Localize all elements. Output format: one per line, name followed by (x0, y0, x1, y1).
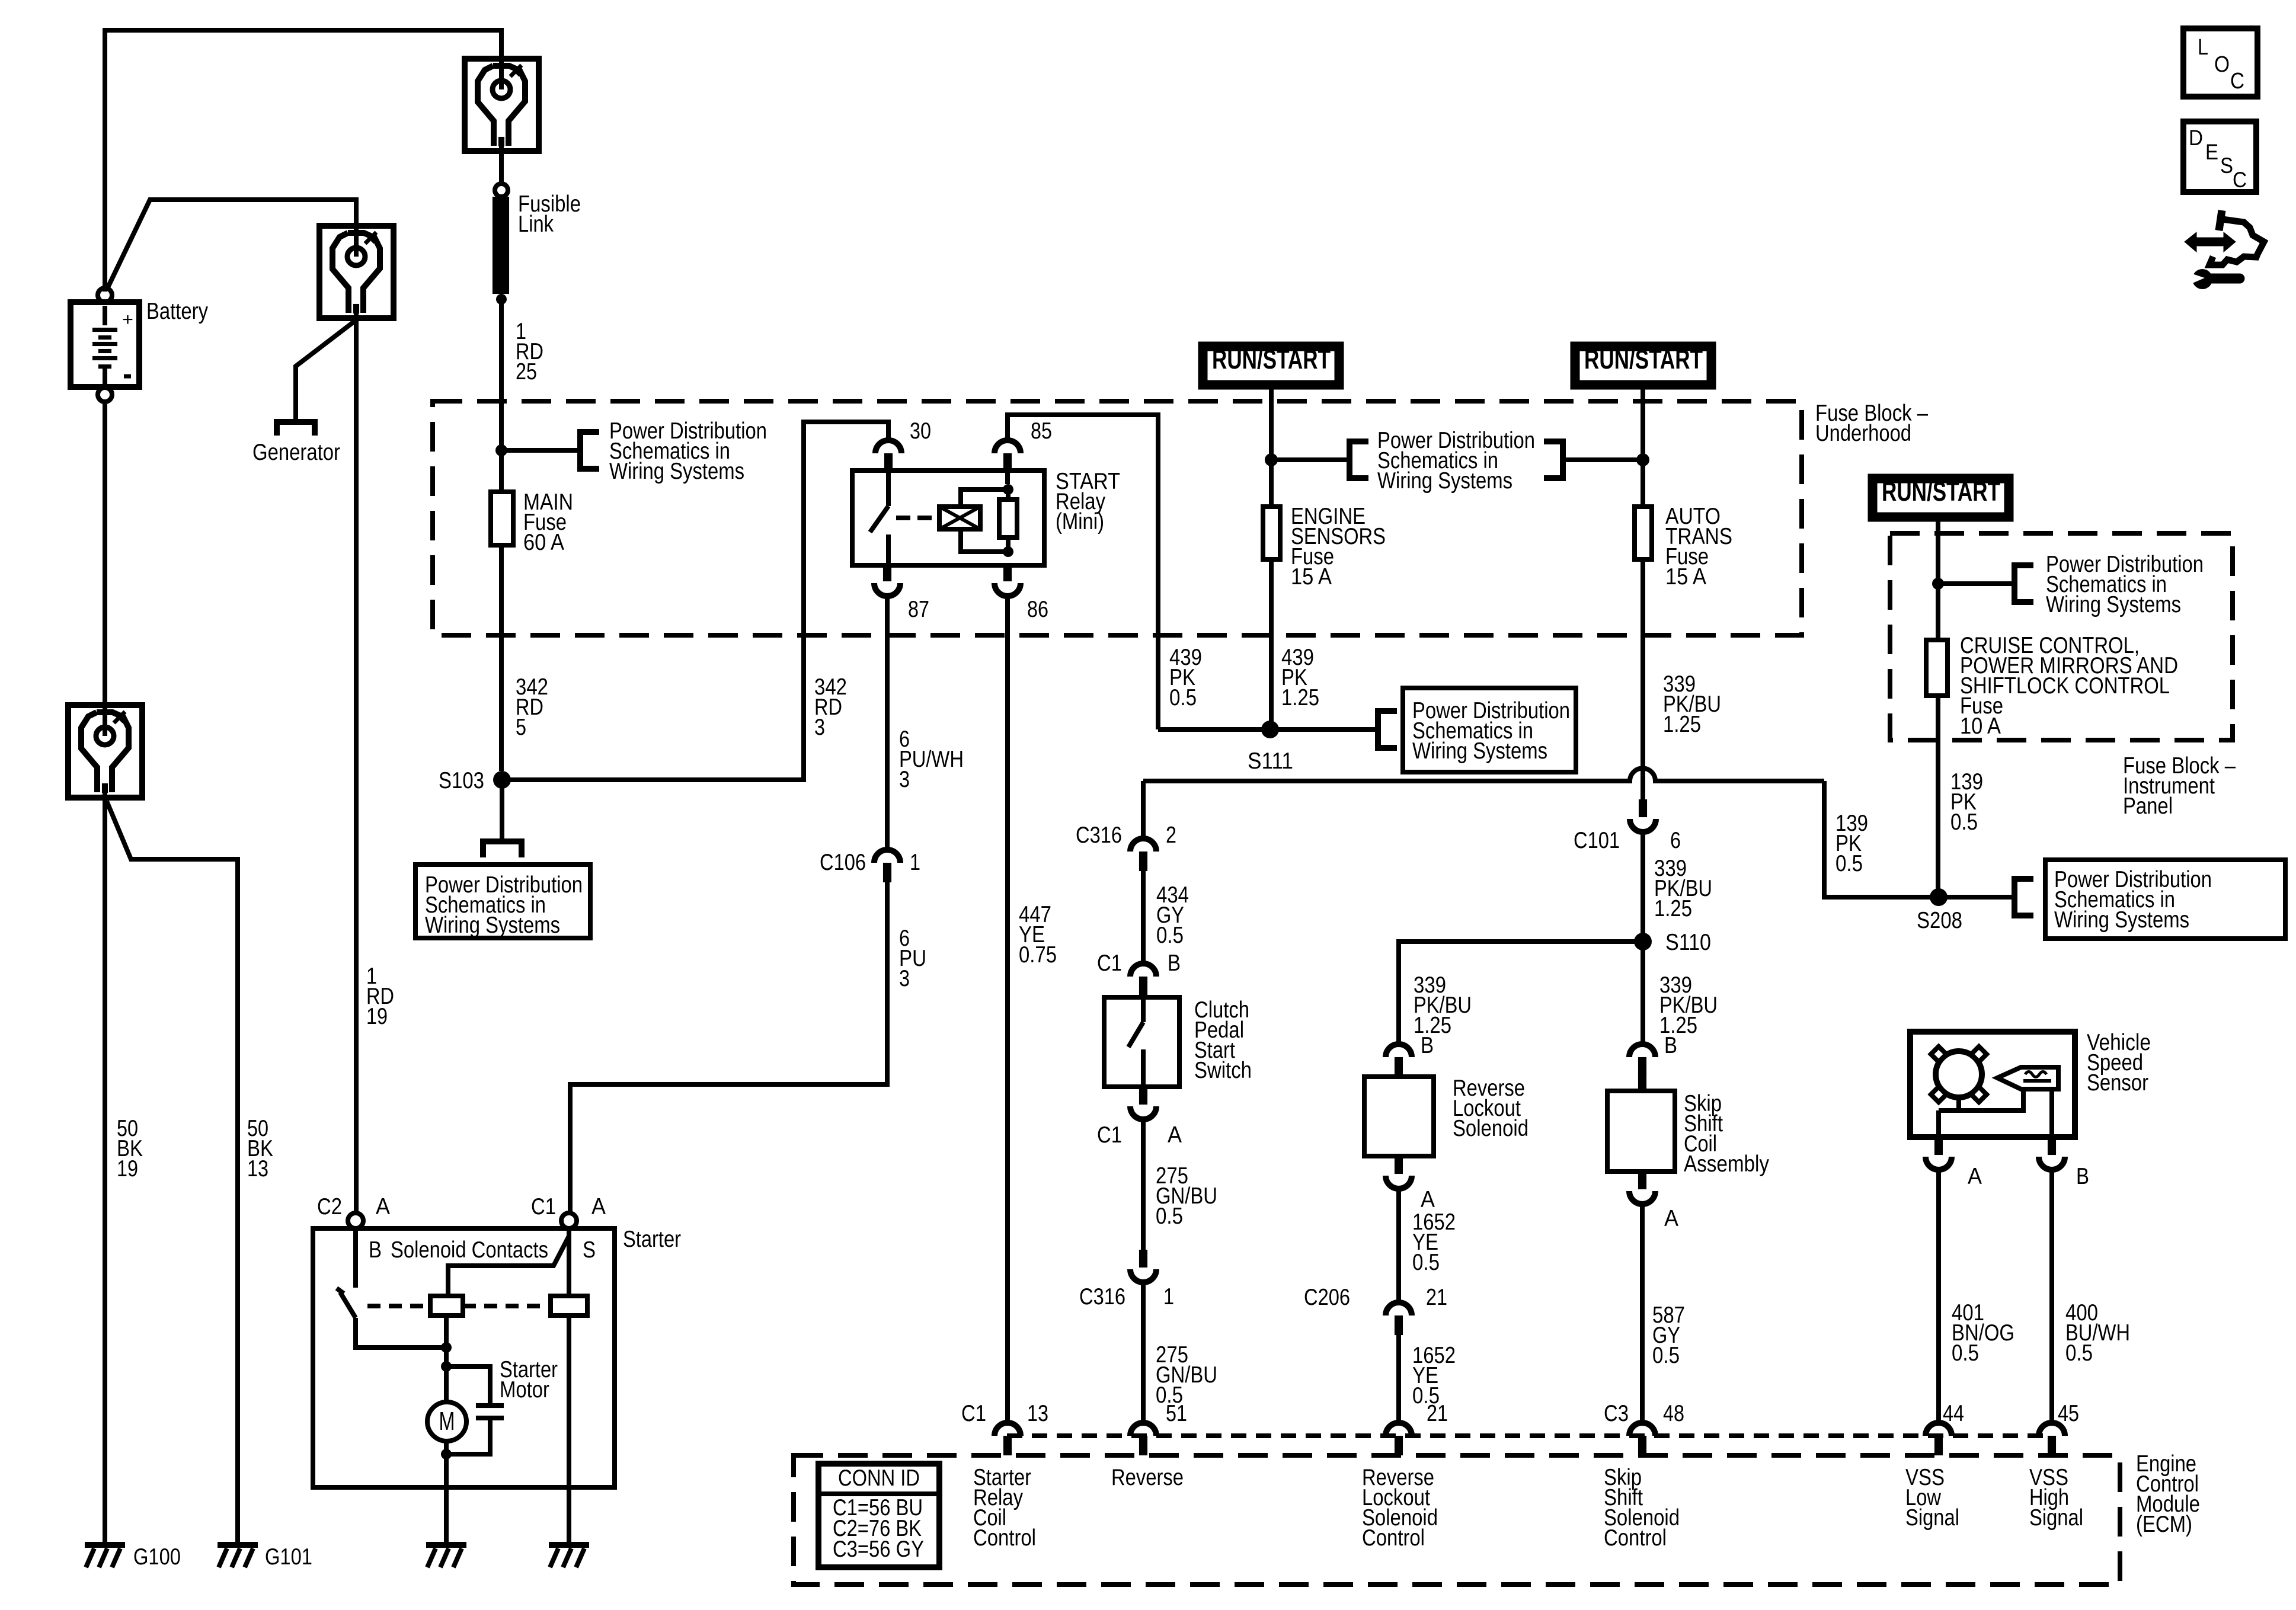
clutch pedal start switch box (1104, 997, 1179, 1087)
svg-text:L: L (2198, 35, 2208, 60)
svg-text:15 A: 15 A (1291, 564, 1332, 590)
svg-text:G101: G101 (265, 1544, 312, 1570)
svg-text:Wiring Systems: Wiring Systems (1412, 738, 1547, 764)
svg-text:19: 19 (117, 1156, 138, 1182)
svg-text:C3=56 GY: C3=56 GY (833, 1537, 924, 1562)
node relay coil top junction (1003, 484, 1013, 495)
vss reluctor ring (1936, 1051, 1982, 1097)
power distribution box (S111) (1403, 688, 1576, 772)
svg-text:C: C (2230, 69, 2244, 94)
wire 401 BN/OG to ECM pin 44 (1936, 1170, 1941, 1423)
wire 339 PK/BU 1.25 fuse down to C101 (1641, 559, 1645, 799)
svg-text:Assembly: Assembly (1684, 1151, 1769, 1177)
ground G100 (85, 1542, 125, 1548)
svg-text:C1: C1 (961, 1401, 986, 1426)
connector C106 pin 1 (874, 850, 900, 863)
svg-text:0.75: 0.75 (1019, 942, 1057, 968)
svg-text:G100: G100 (133, 1544, 181, 1570)
wire 434 GY to clutch switch (1141, 871, 1146, 964)
wire relay pin 87 to C106 (885, 596, 890, 850)
svg-text:30: 30 (910, 418, 931, 444)
svg-text:60 A: 60 A (523, 530, 564, 555)
svg-text:C: C (2233, 168, 2247, 192)
wire RUN/START 2 down to fuse (1641, 389, 1645, 460)
wire 275 GN/BU to C316 pin 1 (1141, 1119, 1146, 1250)
svg-text:0.5: 0.5 (1950, 809, 1978, 835)
wire 50 BK 13 to G101 (107, 801, 238, 1542)
svg-text:RUN/START: RUN/START (1212, 344, 1331, 375)
fuse block underhood dashed box (433, 401, 1802, 635)
power distribution box (S103) (415, 865, 590, 938)
node junction engine sensors (1265, 453, 1278, 466)
svg-text:Signal: Signal (1905, 1505, 1959, 1531)
start relay actuation dashed link (896, 516, 939, 520)
ground starter solenoid (549, 1542, 589, 1548)
wire battery positive diagonal to generator output bus (107, 200, 356, 289)
starter capacitor branch (446, 1366, 490, 1403)
node S111 (1261, 721, 1279, 738)
connector clutch switch C1 pin A (1139, 1087, 1147, 1105)
svg-text:C2: C2 (317, 1194, 342, 1219)
svg-text:85: 85 (1031, 418, 1052, 444)
svg-text:Panel: Panel (2123, 793, 2173, 819)
ECM pin 13 connector (994, 1423, 1021, 1436)
svg-text:86: 86 (1027, 597, 1048, 622)
svg-text:25: 25 (516, 359, 537, 385)
wire starter motor to ground (444, 1454, 449, 1542)
wire branch to bracket (cruise) (1938, 581, 2014, 586)
connector C206 pin 21 (1386, 1302, 1412, 1315)
svg-text:Motor: Motor (500, 1377, 549, 1403)
svg-text:51: 51 (1166, 1401, 1187, 1426)
RUN/START feed 1 (engine sensors fuse) (1198, 342, 1344, 389)
svg-text:1.25: 1.25 (1654, 896, 1692, 921)
svg-text:1: 1 (910, 850, 920, 875)
ECM pin 44 connector (1926, 1423, 1952, 1436)
power distribution box (S208) (2045, 860, 2285, 939)
wire 434 GY down to C316 pin 2 (1141, 781, 1146, 838)
reverse lockout solenoid box (1364, 1077, 1434, 1156)
svg-text:B: B (1168, 950, 1181, 976)
svg-text:C316: C316 (1079, 1284, 1125, 1310)
ECM pin 48 connector (1629, 1423, 1655, 1436)
start relay coil wiring loop (961, 489, 1008, 507)
node junction auto trans (1636, 453, 1649, 466)
svg-text:C1: C1 (531, 1194, 556, 1219)
svg-text:0.5: 0.5 (1952, 1340, 1979, 1366)
ECM pin 51 connector (1130, 1423, 1156, 1436)
wire 50 BK 19 to G100 (103, 798, 107, 1542)
svg-text:0.5: 0.5 (1169, 685, 1197, 710)
start relay resistor (999, 500, 1017, 537)
svg-text:0.5: 0.5 (1652, 1343, 1680, 1368)
svg-text:Wiring Systems: Wiring Systems (2046, 592, 2181, 617)
wire branch to power distribution bracket (501, 448, 580, 453)
node S103 (493, 771, 511, 789)
svg-text:E: E (2205, 140, 2218, 164)
svg-text:3: 3 (899, 767, 910, 792)
svg-text:Signal: Signal (2029, 1505, 2083, 1531)
svg-text:S111: S111 (1248, 748, 1293, 774)
vss pickup arrow (1997, 1067, 2058, 1089)
RUN/START feed 2 (auto trans fuse) (1571, 342, 1716, 389)
wire branch to bracket (engine sensors) (1271, 457, 1350, 462)
svg-text:S: S (583, 1237, 596, 1263)
start relay coil (939, 507, 980, 529)
starter solenoid switch (353, 1228, 358, 1288)
wire relay pin 86 to ECM pin 13 (447 YE) (1005, 596, 1010, 1423)
svg-text:B: B (1421, 1033, 1434, 1058)
wire S111 to power distribution box bracket (1270, 727, 1378, 732)
node junction cruise fuse (1932, 578, 1944, 590)
vss internal wiring (1959, 1089, 2023, 1110)
svg-text:D: D (2189, 126, 2203, 150)
node starter junction switch (441, 1342, 452, 1353)
svg-text:RUN/START: RUN/START (1882, 476, 2000, 507)
svg-text:19: 19 (366, 1004, 388, 1029)
fuse CRUISE CONTROL POWER MIRRORS AND SHIFTLOCK CONTROL 10 A (1936, 584, 1940, 640)
svg-text:C1: C1 (1097, 950, 1122, 976)
wire 342 RD 5 MAIN fuse to S103 (499, 545, 504, 771)
start relay box (852, 470, 1044, 565)
svg-text:Control: Control (1604, 1525, 1667, 1551)
wire ring terminal 1 to fusible link (499, 151, 504, 185)
icon DESC box (2183, 121, 2256, 192)
start relay pin 87 connector (883, 564, 891, 581)
starter terminal B circle (348, 1213, 363, 1228)
starter box (313, 1228, 615, 1487)
wire 1 RD 25 fusible link to MAIN fuse (499, 299, 504, 492)
generator frame bracket (277, 422, 315, 436)
svg-text:S208: S208 (1917, 908, 1962, 933)
connector C101 pin 6 (1639, 799, 1647, 817)
svg-text:C1: C1 (1097, 1122, 1122, 1148)
node S110 (1634, 933, 1652, 950)
power distribution reference bracket (MAIN) (580, 432, 599, 469)
wire 400 BU/WH to ECM pin 45 (2049, 1170, 2054, 1423)
wire S110 down to skip shift coil (1641, 942, 1645, 1044)
svg-text:21: 21 (1426, 1285, 1447, 1310)
engine control module dashed box (794, 1455, 2120, 1585)
battery B+ terminal circle (98, 288, 112, 302)
connector reverse lockout pin A (1395, 1156, 1403, 1174)
starter solenoid contact 2 (551, 1296, 587, 1315)
connector clutch switch C1 pin B (1130, 964, 1156, 977)
svg-text:S103: S103 (439, 768, 484, 793)
wire S208 to power distribution bracket (1939, 895, 2014, 900)
ECM pin 45 connector (2039, 1423, 2065, 1436)
svg-text:Wiring Systems: Wiring Systems (609, 459, 744, 484)
svg-text:B: B (369, 1237, 382, 1263)
svg-text:Reverse: Reverse (1111, 1465, 1184, 1490)
wire S103 branch to start relay pin 30 (502, 422, 888, 780)
icon wrench (2192, 269, 2212, 289)
svg-text:Wiring Systems: Wiring Systems (2054, 907, 2189, 933)
svg-text:(ECM): (ECM) (2136, 1512, 2192, 1537)
svg-text:1: 1 (1163, 1284, 1174, 1310)
svg-text:5: 5 (516, 715, 526, 740)
svg-text:A: A (1968, 1164, 1982, 1189)
svg-text:48: 48 (1663, 1401, 1684, 1426)
connector vss pin B (2048, 1137, 2056, 1155)
svg-text:Generator: Generator (252, 440, 340, 465)
power distribution reference bracket (auto trans side) (1544, 441, 1563, 478)
svg-text:15 A: 15 A (1665, 564, 1706, 590)
connector C316 pin 2 (1130, 838, 1156, 852)
svg-text:1.25: 1.25 (1663, 712, 1701, 737)
svg-text:6: 6 (1670, 828, 1681, 853)
ground starter motor (426, 1542, 466, 1548)
svg-text:Battery: Battery (146, 299, 208, 324)
svg-text:Sensor: Sensor (2087, 1070, 2148, 1096)
ground G101 (218, 1542, 258, 1548)
clutch pedal start switch contacts (1141, 997, 1146, 1022)
svg-text:21: 21 (1427, 1401, 1448, 1426)
starter solenoid actuation dashed line (367, 1304, 430, 1308)
node starter junction motor top (441, 1361, 452, 1372)
ECM pin interconnect dotted line (1007, 1433, 2052, 1438)
vehicle speed sensor box (1910, 1032, 2075, 1137)
node fusible link top circle (495, 184, 508, 197)
svg-text:2: 2 (1166, 822, 1176, 848)
wire S110 branch to reverse lockout solenoid (1399, 942, 1643, 1044)
node fusible link bottom junction (496, 294, 507, 305)
ECM pin 21 connector (1386, 1423, 1412, 1436)
svg-text:10 A: 10 A (1960, 713, 2001, 739)
connector C316 pin 1 (1139, 1250, 1147, 1267)
wire RUN/START 3 down (1936, 521, 1940, 584)
connector skip shift pin B (1629, 1044, 1655, 1057)
svg-text:A: A (376, 1194, 390, 1219)
svg-text:C316: C316 (1076, 822, 1122, 848)
starter solenoid contact 1 (430, 1296, 463, 1315)
svg-text:C3: C3 (1604, 1401, 1629, 1426)
svg-text:Control: Control (1362, 1525, 1425, 1551)
fuse AUTO TRANS 15 A (1641, 460, 1645, 507)
svg-text:0.5: 0.5 (1156, 1204, 1183, 1229)
svg-text:O: O (2214, 52, 2230, 77)
wire 434 GY feed horizontal with crossover hop (1143, 769, 1824, 782)
svg-text:(Mini): (Mini) (1056, 509, 1104, 534)
skip shift coil assembly box (1607, 1091, 1675, 1172)
wire 139 PK fuse to S208 (1936, 696, 1940, 897)
CONN ID table (818, 1464, 939, 1567)
wire 1652 YE C206 to ECM pin 21 (1396, 1335, 1401, 1423)
svg-text:CONN ID: CONN ID (838, 1465, 920, 1491)
svg-text:13: 13 (1027, 1401, 1048, 1426)
wire 587 GY skip shift to ECM pin 48 (1640, 1204, 1645, 1423)
svg-text:0.5: 0.5 (2065, 1340, 2093, 1366)
power distribution reference bracket (S208) (2014, 879, 2033, 916)
wire relay pin 85 to S111 (439 PK 0.5) (1008, 415, 1158, 729)
connector vss pin A (1934, 1137, 1943, 1155)
svg-text:Wiring Systems: Wiring Systems (1377, 468, 1512, 494)
power distribution reference bracket (cruise) (2014, 565, 2033, 602)
svg-text:0.5: 0.5 (1156, 923, 1184, 948)
RUN/START feed 3 (cruise fuse) (1868, 474, 2013, 521)
svg-text:45: 45 (2058, 1401, 2079, 1426)
svg-text:3: 3 (899, 966, 910, 991)
fusible link element (493, 197, 509, 294)
svg-text:RUN/START: RUN/START (1584, 344, 1703, 375)
connector reverse lockout pin B (1386, 1044, 1412, 1057)
svg-text:87: 87 (908, 597, 929, 622)
svg-text:C101: C101 (1574, 828, 1620, 853)
start relay pin 86 connector (1003, 564, 1012, 581)
battery (71, 302, 139, 387)
fuse ENGINE SENSORS 15 A (1269, 460, 1274, 507)
fuse block instrument panel dashed box (1890, 533, 2233, 740)
svg-text:1.25: 1.25 (1281, 685, 1319, 710)
svg-text:C206: C206 (1304, 1285, 1350, 1310)
wire C101 to S110 (1641, 832, 1645, 942)
wire S103 down to power distribution box (500, 780, 504, 841)
svg-text:Underhood: Underhood (1815, 421, 1911, 446)
svg-text:Control: Control (973, 1525, 1036, 1551)
wire 275 GN/BU to ECM pin 51 (1141, 1282, 1146, 1423)
power distribution reference bracket (S111) (1378, 711, 1397, 748)
svg-text:A: A (1421, 1187, 1435, 1212)
wire battery negative to ring terminal 3 (103, 402, 107, 705)
power distribution reference bracket (engine sensors) (1350, 441, 1368, 478)
icon vehicle outline (2219, 210, 2222, 231)
svg-text:3: 3 (814, 715, 825, 740)
wire generator body branch (296, 320, 356, 422)
svg-text:Switch: Switch (1194, 1058, 1252, 1083)
node starter junction motor bottom (441, 1449, 452, 1459)
wire 1652 YE reverse lockout to C206 (1396, 1189, 1401, 1302)
ring terminal 2 (generator output) (319, 226, 394, 318)
wire battery positive to fusible-link ring terminal (top bus) (105, 30, 501, 292)
svg-text:Wiring Systems: Wiring Systems (425, 913, 560, 938)
starter terminal S circle (561, 1213, 577, 1228)
power distribution frame bracket (S103) (483, 841, 522, 857)
svg-text:B: B (1664, 1033, 1677, 1058)
starter motor (444, 1366, 449, 1402)
svg-text:B: B (2076, 1164, 2089, 1189)
wire RUN/START 1 down to fuse (1269, 389, 1274, 460)
wire 6 PU 3 C106 to starter C1 (570, 882, 887, 1214)
node S208 (1930, 888, 1948, 906)
svg-text:M: M (439, 1407, 455, 1436)
ring terminal 1 (fusible link feed) (465, 59, 539, 151)
ring terminal 3 (battery ground cables) (68, 705, 142, 798)
svg-text:0.5: 0.5 (1835, 851, 1863, 876)
start relay switch (886, 470, 891, 506)
wire 139 PK branch from 434 feed to S208 (1824, 781, 1938, 897)
start relay pin 30 connector (875, 440, 901, 453)
svg-text:C106: C106 (820, 850, 866, 875)
icon double arrow (2185, 232, 2236, 252)
battery negative terminal circle (98, 388, 112, 402)
fuse MAIN 60 A (491, 492, 513, 545)
svg-text:13: 13 (247, 1156, 268, 1182)
svg-text:A: A (591, 1194, 606, 1219)
svg-text:44: 44 (1943, 1401, 1964, 1426)
svg-text:S: S (2220, 153, 2233, 178)
starter S terminal wiring (567, 1228, 571, 1296)
svg-text:S110: S110 (1665, 930, 1711, 955)
svg-text:0.5: 0.5 (1412, 1250, 1440, 1275)
svg-text:A: A (1168, 1122, 1182, 1148)
node junction above MAIN fuse (495, 444, 507, 456)
start relay pin 85 connector (994, 440, 1021, 453)
wire 439 PK 1.25 fuse to S111 (1269, 559, 1274, 729)
wire bracket to auto trans junction (1563, 457, 1642, 462)
icon LOC box (2183, 28, 2257, 97)
svg-text:Link: Link (518, 212, 554, 237)
svg-text:+: + (122, 310, 133, 329)
svg-text:Solenoid: Solenoid (1453, 1116, 1528, 1141)
wire generator ring terminal down to starter C2 (354, 318, 359, 1214)
node relay coil bottom junction (1003, 546, 1013, 557)
wire S111 horizontal (1158, 727, 1270, 732)
svg-text:Solenoid Contacts: Solenoid Contacts (391, 1237, 548, 1263)
svg-text:Starter: Starter (623, 1227, 681, 1252)
connector skip shift pin A (1638, 1172, 1646, 1189)
svg-text:A: A (1664, 1206, 1678, 1231)
wire starter S to ground (567, 1315, 571, 1542)
